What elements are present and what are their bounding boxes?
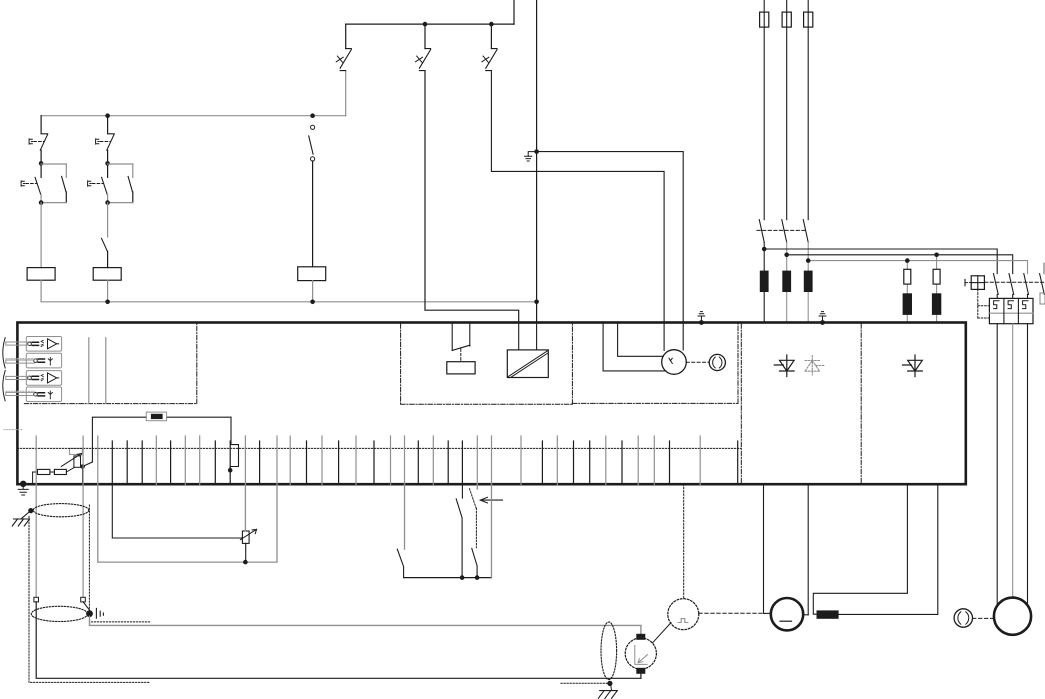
tacho BR1 — [625, 638, 656, 669]
wire psu in1 — [518, 323, 520, 350]
node field tap A — [905, 258, 910, 263]
switch Q10 pole3 — [1024, 274, 1029, 295]
pushbutton S3 start (NO) + seal-in contact K1 branch1 — [39, 161, 44, 166]
resistor R3 (framed) — [146, 412, 166, 421]
terminal ticks — [35, 436, 37, 485]
motor M1 (DC) — [771, 598, 803, 630]
relay K4 coil — [447, 362, 475, 374]
wire rail to breaker Q1 — [345, 71, 347, 116]
node shield1 drain — [28, 508, 33, 513]
wire field return — [838, 484, 938, 614]
node earth main — [20, 481, 26, 487]
breaker Q3 — [490, 24, 492, 48]
bus line 2 — [105, 338, 107, 404]
wire R5-R6 — [50, 471, 55, 473]
wire phase3 down — [807, 242, 809, 322]
fan coupling dashed — [973, 617, 995, 619]
subbox B (relay+psu) dashdot — [400, 324, 402, 404]
node bottom-branch3 — [310, 300, 315, 305]
thyristor V1 (armature bridge) — [774, 355, 794, 377]
wire to terminal via pot node — [83, 462, 93, 484]
coil K3 — [298, 267, 326, 281]
cable entry brace 2 — [3, 371, 5, 401]
coil K1 — [27, 268, 55, 281]
node S11 join — [460, 575, 465, 580]
fuse F2 — [786, 0, 788, 220]
chassis bond glyph — [96, 608, 103, 618]
wire loop A (terminal 97.8) — [98, 484, 277, 562]
shield dotted row2 — [6, 358, 35, 360]
module A1 (analog input amp) — [26, 337, 61, 352]
input pair 3 — [6, 376, 29, 379]
fuse F5 — [933, 269, 940, 284]
wire feed L3 to isolator — [808, 261, 1027, 274]
handle Q10 — [964, 279, 966, 285]
fuse F3 — [807, 0, 809, 220]
cable shield ellipse 2 — [31, 606, 87, 621]
wire core A down — [36, 602, 641, 678]
module A2 (digital input) — [26, 353, 61, 368]
switch Q10 linkage — [985, 281, 1045, 283]
actuation arrow — [480, 497, 502, 503]
fuse F6 (armature, phase1) — [760, 271, 768, 291]
coil K2 — [93, 268, 121, 281]
input pair 1 — [6, 342, 29, 345]
contactor linkage — [757, 229, 806, 231]
wire coil K3 to bottom rail — [312, 281, 314, 302]
wire top rail — [346, 23, 514, 25]
wire cable1 core A — [35, 484, 37, 600]
pilot lamp P1 — [709, 354, 725, 370]
switch Q10 pole1 — [994, 274, 999, 295]
wire tacho hot (gray) — [90, 617, 641, 635]
earth bond 2 on cabinet — [820, 320, 825, 325]
wire R6 to pot — [66, 467, 74, 472]
resistor R5 — [37, 469, 50, 474]
node shield2 — [86, 610, 93, 617]
contact S5 (limit, branch3) — [311, 125, 315, 129]
shield dotted bottom left — [28, 516, 30, 621]
switch S11 linked contact (dotted link) — [476, 484, 478, 489]
wire core B to shield node — [83, 602, 89, 610]
fan impeller — [954, 609, 972, 627]
encoder link dashdot — [683, 484, 685, 599]
node bottom rail end — [534, 300, 539, 305]
fuse F7 (armature, phase2) — [783, 271, 791, 291]
wire Q2 down — [425, 71, 519, 323]
encoder BQ1 (pulse) — [668, 599, 699, 630]
wire pot to loop A — [245, 543, 247, 562]
wire tacho return up — [640, 673, 642, 679]
tacho terminal top — [637, 634, 645, 639]
node earth tap — [534, 149, 539, 154]
wire coil K1 to bottom rail — [40, 280, 42, 302]
wire psu in2 — [536, 323, 538, 350]
partition dashdot 1 — [740, 324, 742, 483]
thyristor V2 (reverse bridge, optional dashed) — [805, 356, 824, 376]
wire branch2 mid — [107, 203, 109, 237]
stub armature left — [764, 612, 771, 614]
wire exciter left in1 — [603, 324, 666, 371]
wire motor U — [996, 324, 998, 604]
tacho terminal bottom — [637, 668, 645, 673]
relay K4 link — [460, 349, 462, 362]
shield ellipse 3 (tacho cable) — [601, 622, 617, 680]
switch Q10 pole4 (clipped) — [1043, 263, 1045, 273]
subbox C (exciter) dashdot — [572, 402, 738, 404]
wire Q3 down-right — [491, 71, 664, 351]
motor M2 (AC fan drive) — [994, 598, 1031, 635]
overload heater clipped pole4 — [1040, 293, 1045, 304]
pushbutton S4 start (NO) + seal-in contact K2 branch2 — [105, 161, 110, 166]
wire loop B (terminal 112.3) — [112, 484, 242, 538]
fuse F1 — [763, 0, 765, 220]
node rail-branch3 — [310, 113, 315, 118]
wire motor V — [1012, 324, 1014, 598]
node phase1 tap — [762, 247, 767, 252]
relay K4 contact — [451, 324, 453, 351]
node shield earth — [607, 681, 612, 686]
wire to earth E4 — [611, 683, 612, 690]
wire armature + — [763, 484, 765, 613]
switch S10 (NO) — [404, 484, 406, 549]
switch S11 (NO) — [461, 484, 463, 498]
node rail-branch2 — [105, 113, 110, 118]
input pair 4 — [6, 392, 34, 395]
bus line 1 — [88, 338, 90, 404]
fuse F4 — [904, 269, 911, 284]
wire armature - — [807, 484, 809, 615]
wire pot drop from terminal 245.4 — [244, 484, 246, 531]
wire R5 to edge — [33, 471, 38, 473]
wire coil K2 to bottom rail — [107, 280, 109, 302]
handle link dotted — [977, 289, 979, 318]
pushbutton S1 stop (NC) branch1 — [40, 116, 42, 134]
earth E3 (protective) — [12, 519, 29, 526]
shield dotted down — [88, 505, 90, 611]
wire motor W — [1027, 324, 1029, 604]
shield dotted bottom right — [561, 682, 610, 684]
wire control rail top — [41, 115, 346, 117]
breaker Q2 — [424, 24, 426, 48]
tacho-encoder link — [653, 623, 671, 643]
wire field from box — [813, 484, 907, 614]
exciter G2 — [662, 350, 687, 375]
resistor R6 — [54, 469, 66, 474]
node topfeed Q2 — [423, 22, 428, 27]
node bottom-branch2 — [105, 300, 110, 305]
pushbutton S2 stop (NC) branch2 — [107, 116, 109, 134]
wire field tap B (from L2) — [936, 255, 938, 323]
wire tachometer feed — [537, 152, 684, 350]
wire feed L1 to isolator — [764, 249, 997, 274]
earth bond 1 on cabinet — [699, 320, 704, 325]
wire internal net — [92, 417, 146, 462]
wire field tap A (from L3) — [906, 261, 908, 323]
wire return up (terminal 491.5) — [491, 484, 493, 577]
psu G1 (isolating converter) — [507, 350, 548, 378]
module A3 (analog input amp) — [26, 371, 61, 386]
earth E2 cabinet — [18, 485, 28, 495]
wire exciter left in2 — [618, 324, 664, 357]
contactor K1M poles — [759, 220, 764, 243]
shield dotted row4 — [6, 390, 35, 392]
wire branch1 to coil K1 — [40, 203, 42, 268]
node pot wiper join — [243, 560, 248, 565]
wire cable1 core B — [82, 484, 84, 600]
switch Q10 pole2 — [1009, 274, 1014, 295]
wire feed L2 to isolator — [787, 255, 1013, 274]
overload relay F10 — [989, 298, 1033, 323]
potentiometer R4 (internal trim) — [69, 448, 82, 454]
wire branch3 to coil K3 — [312, 161, 314, 267]
wire shield1 to earth — [22, 511, 31, 519]
connector pin A — [34, 597, 39, 602]
cable shield ellipse 1 — [33, 504, 89, 517]
wire top rail up to edge — [513, 0, 515, 24]
node field tap B — [934, 253, 939, 258]
node net drop — [228, 468, 233, 473]
coupling dashed encoder-motor — [699, 612, 762, 614]
wire phase2 down — [786, 242, 788, 322]
contact K3 aux (NO) branch2 — [102, 238, 108, 251]
node S11b join — [475, 575, 480, 580]
choke L1 (field) — [817, 611, 838, 618]
potentiometer R2 (speed ref) — [242, 531, 249, 543]
subbox A (I/O blocks) dashdot — [24, 403, 197, 405]
breaker Q1 — [345, 24, 347, 48]
wire mains vertical — [536, 0, 538, 323]
wire S10 bottom — [404, 577, 492, 579]
node pot top — [80, 464, 85, 469]
fuse F4a black — [903, 294, 911, 315]
coupling dashed exciter — [686, 361, 709, 363]
shield dotted left edge — [4, 429, 22, 431]
converter cabinet outline — [17, 323, 965, 485]
node phase2 tap — [784, 253, 789, 258]
thyristor V3 (field bridge) — [903, 355, 923, 377]
wire control bottom rail — [41, 301, 536, 303]
wire phase1 down — [763, 242, 765, 322]
input pair 2 — [6, 360, 34, 363]
cable entry brace 1 — [3, 338, 5, 368]
stub armature right — [803, 614, 809, 616]
module A4 (digital input) — [26, 387, 61, 402]
node topfeed Q3 — [489, 22, 494, 27]
fuse F8 (armature, phase3) — [804, 271, 812, 291]
terminal strip dotted line — [17, 447, 741, 449]
earth E1 — [528, 152, 536, 157]
partition dashdot 2 — [860, 324, 862, 483]
connector pin B — [81, 597, 86, 602]
shield dotted stub mid — [91, 621, 150, 623]
earth E4 (noiseless) — [598, 691, 617, 699]
fuse F5a black — [932, 294, 940, 315]
node phase3 tap — [806, 258, 811, 263]
